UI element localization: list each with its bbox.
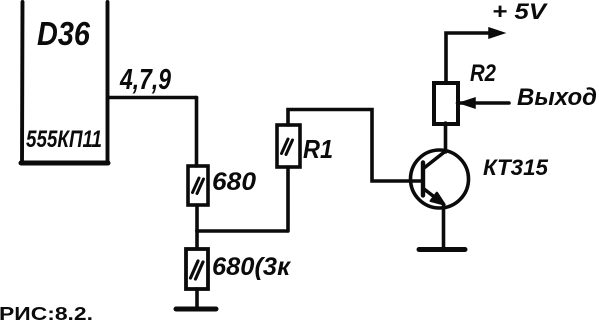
wire junction down to resistor 680/3k <box>195 231 199 249</box>
wire junction to R1 bottom <box>197 229 288 233</box>
wire 680 to junction <box>195 205 199 231</box>
resistor R3 680(3k <box>186 249 208 289</box>
resistor 680 <box>188 166 208 205</box>
wire R1 bottom to junction <box>286 167 290 231</box>
svg-text:D36: D36 <box>37 15 91 52</box>
output wire <box>458 101 510 105</box>
wire IC pins 4,7,9 to node <box>108 96 197 100</box>
wire R1 top to transistor base <box>288 110 421 182</box>
wire collector to R2 <box>444 123 448 152</box>
transistor emitter stroke with arrow <box>424 189 445 205</box>
wire node down to resistor 680 <box>195 98 199 167</box>
svg-text:555КП11: 555КП11 <box>26 126 102 153</box>
output arrowhead <box>460 98 475 108</box>
svg-text:R2: R2 <box>470 60 497 87</box>
svg-text:4,7,9: 4,7,9 <box>119 64 171 96</box>
wire R2 top to +5V <box>446 33 494 83</box>
transistor Q1 KT315 circle <box>411 150 469 208</box>
IC U1 D36 box <box>21 2 108 163</box>
svg-text:+ 5V: + 5V <box>492 0 549 24</box>
svg-text:R1: R1 <box>303 134 333 164</box>
+5V arrowhead <box>489 28 504 38</box>
ground <box>176 307 216 312</box>
resistor R1 power marks <box>282 139 293 155</box>
svg-text:Выход: Выход <box>517 84 597 111</box>
svg-text:РИС:8.2.: РИС:8.2. <box>0 304 93 323</box>
svg-text:680: 680 <box>212 168 256 196</box>
svg-text:680(3к: 680(3к <box>212 253 291 281</box>
transistor collector stroke <box>424 152 445 169</box>
resistor R1 <box>277 125 300 167</box>
resistor R2 <box>434 83 458 124</box>
resistor 680 power marks <box>193 178 204 194</box>
svg-text:КТ315: КТ315 <box>483 155 549 180</box>
resistor 680(3k power marks <box>191 261 204 279</box>
ground (emitter) <box>419 247 465 252</box>
wire emitter to ground <box>442 206 446 248</box>
wire 680(3k to ground <box>195 289 199 308</box>
transistor base bar <box>421 163 425 196</box>
